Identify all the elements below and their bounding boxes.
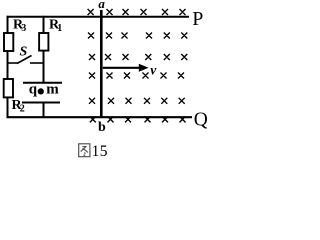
wire left branch bbox=[7, 16, 9, 118]
wire middle branch between R1 and capacitor bbox=[43, 50, 45, 83]
svg-text:15: 15 bbox=[92, 143, 108, 160]
resistor R3 bbox=[4, 33, 13, 51]
svg-text:a: a bbox=[98, 0, 105, 11]
node P bbox=[192, 8, 203, 30]
svg-text:3: 3 bbox=[21, 23, 26, 34]
node Q bbox=[194, 109, 208, 130]
magnetic field symbols row 6 bbox=[90, 116, 186, 122]
magnetic field symbols row 1 bbox=[88, 9, 186, 15]
caption text 15 bbox=[92, 143, 108, 160]
magnetic field symbols row 5 bbox=[89, 98, 185, 104]
label R1 bbox=[49, 18, 62, 35]
svg-text:P: P bbox=[192, 8, 203, 30]
conducting rod ab (thick vertical line) bbox=[100, 10, 103, 118]
resistor R2 bbox=[4, 79, 13, 97]
capacitor top plate bbox=[23, 82, 62, 84]
label v bbox=[150, 62, 157, 77]
magnetic field symbols row 4 bbox=[89, 73, 184, 79]
svg-text:2: 2 bbox=[20, 104, 25, 115]
charged particle label q m bbox=[29, 82, 60, 98]
wire bottom rail (circuit bottom to Q) bbox=[7, 116, 193, 118]
wire top rail (circuit top to P) bbox=[7, 16, 190, 18]
switch S bbox=[8, 56, 44, 64]
label R2 bbox=[12, 98, 25, 115]
node b bbox=[98, 120, 106, 135]
svg-text:m: m bbox=[46, 82, 59, 98]
svg-text:Q: Q bbox=[194, 109, 207, 130]
svg-text:v: v bbox=[150, 62, 157, 77]
caption character 图 bbox=[79, 144, 90, 157]
label R3 bbox=[13, 18, 26, 35]
svg-text:q: q bbox=[29, 82, 38, 98]
magnetic field symbols row 2 bbox=[88, 33, 187, 39]
wire middle branch below capacitor bbox=[43, 102, 45, 118]
svg-text:b: b bbox=[98, 120, 106, 135]
wire middle branch upper segment bbox=[43, 16, 45, 34]
magnetic field symbols row 3 bbox=[89, 54, 187, 60]
capacitor bottom plate bbox=[22, 102, 60, 104]
velocity arrow v bbox=[103, 64, 149, 72]
svg-text:S: S bbox=[20, 45, 28, 60]
svg-text:1: 1 bbox=[57, 23, 62, 34]
node a bbox=[98, 0, 105, 11]
label S bbox=[20, 45, 28, 60]
resistor R1 bbox=[39, 33, 48, 51]
